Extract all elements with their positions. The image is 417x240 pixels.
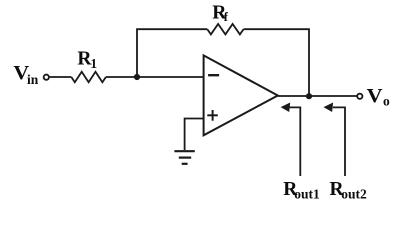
- node A junction dot: [134, 74, 140, 80]
- svg-text:out1: out1: [294, 187, 320, 202]
- arrow Rout1: [290, 107, 301, 176]
- svg-text:1: 1: [90, 56, 97, 71]
- node Vin terminal: [44, 75, 49, 80]
- resistor R1: [71, 72, 106, 82]
- node Vo terminal: [357, 94, 362, 99]
- wire: [106, 76, 204, 78]
- op-amp non-inverting input marker: [207, 114, 218, 116]
- op-amp inverting input marker: [208, 74, 219, 76]
- ground: [174, 151, 194, 164]
- svg-text:V: V: [367, 86, 383, 107]
- wire: [50, 76, 72, 78]
- wire: [244, 29, 310, 96]
- node output junction dot: [306, 93, 312, 99]
- svg-text:out2: out2: [341, 187, 367, 202]
- svg-text:o: o: [383, 94, 390, 109]
- arrow Rout2: [333, 107, 345, 176]
- wire: [278, 95, 357, 97]
- op-amp U1: [204, 55, 278, 135]
- resistor Rf: [207, 24, 243, 34]
- svg-text:in: in: [27, 72, 39, 87]
- wire: [137, 29, 207, 77]
- wire: [185, 119, 204, 151]
